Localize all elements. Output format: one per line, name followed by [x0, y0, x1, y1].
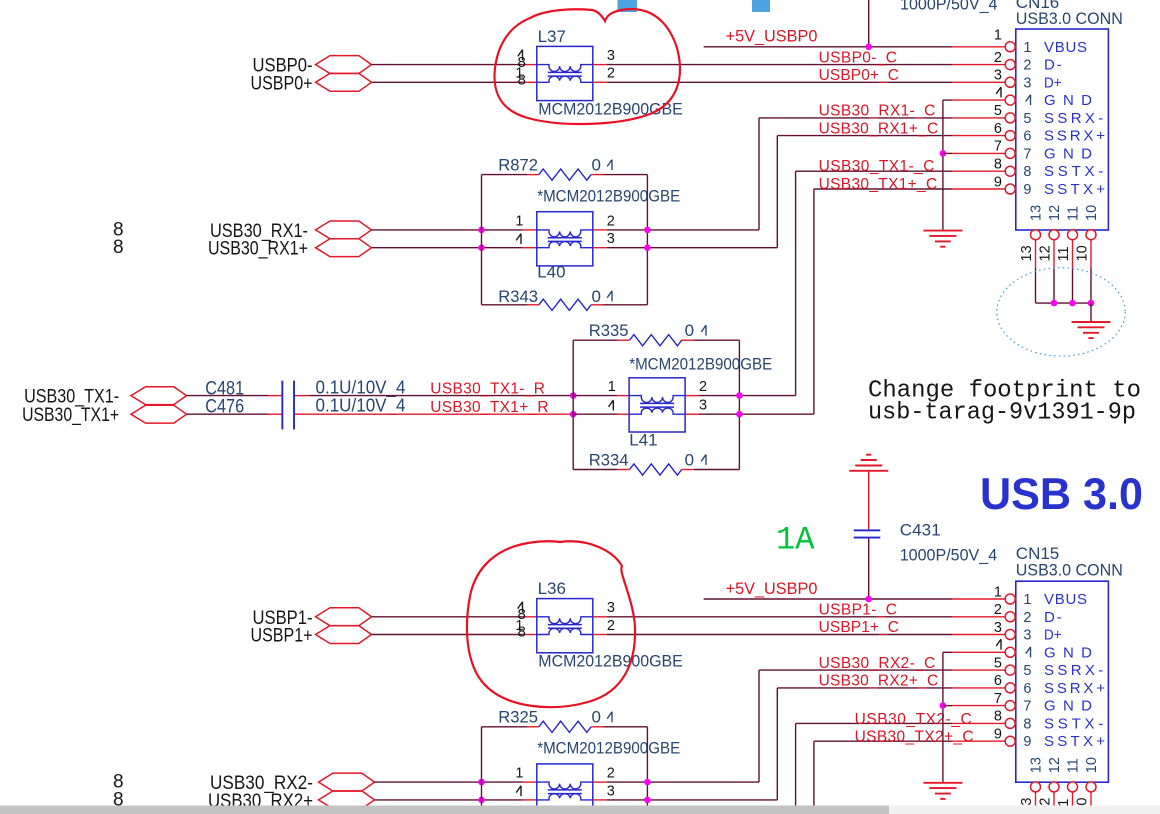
- svg-text:5: 5: [994, 103, 1002, 119]
- svg-text:GND: GND: [1044, 698, 1092, 715]
- svg-text:12: 12: [1047, 757, 1063, 773]
- junction GND / CN15 pin 7: [940, 702, 947, 709]
- wire CN16 pin 13 shield drop: [1035, 239, 1037, 268]
- CN15 pin 6 red stub: [952, 687, 1006, 689]
- wire TX1- row to vertical jog: [699, 395, 796, 397]
- wire USB30_TX2+_C to CN15 pin 9: [814, 740, 952, 742]
- R325 pin 2 stub: [591, 726, 603, 728]
- wire USB30_RX2+_C to CN15 pin 6: [777, 687, 952, 689]
- wire USB30_TX2+_C vertical jog: [813, 741, 815, 814]
- R334 pin 2 stub: [682, 469, 694, 471]
- svg-text:3: 3: [994, 620, 1002, 636]
- annotation freehand red circle around L37: [494, 9, 679, 124]
- wire USB30_RX2-_C to CN15 pin 5: [759, 669, 952, 671]
- svg-text:L40: L40: [537, 263, 565, 282]
- svg-text:VBUS: VBUS: [1044, 591, 1087, 608]
- svg-text:USB30_TX2-_C: USB30_TX2-_C: [855, 711, 972, 728]
- junction R334-box / TX1+ row left: [570, 411, 577, 418]
- UI scrollbar track: [0, 806, 1160, 814]
- wire USB30_TX2-_C vertical jog: [795, 723, 797, 814]
- L40 pin number 4: [516, 234, 521, 244]
- svg-text:SSRX-: SSRX-: [1044, 662, 1103, 679]
- svg-text:7: 7: [1023, 699, 1031, 715]
- wire +5V_USBP0 to CN15 pin 1: [704, 598, 952, 600]
- svg-text:0: 0: [592, 708, 601, 727]
- L41 pin number 4: [609, 400, 614, 410]
- junction shield bus / pin 10: [1088, 300, 1095, 307]
- svg-text:1: 1: [515, 766, 523, 782]
- wire CN16 pin 12 shield drop: [1053, 239, 1055, 268]
- CN15 pin 4 circle: [1005, 647, 1015, 657]
- wire R334 row right: [694, 469, 739, 471]
- svg-text:SSTX-: SSTX-: [1044, 163, 1103, 180]
- junction R325-box / RX2- row right: [644, 779, 651, 786]
- R872 pin 2 stub: [591, 174, 603, 176]
- junction R334-box / TX1+ row right: [736, 411, 743, 418]
- L40 pin 1 stub: [523, 229, 537, 231]
- CN16 pin 4 circle: [1005, 95, 1015, 105]
- svg-text:11: 11: [1066, 758, 1082, 773]
- wire RX2- row to vertical jog: [607, 781, 759, 783]
- svg-text:SSRX-: SSRX-: [1044, 110, 1103, 127]
- svg-text:1: 1: [1023, 40, 1031, 56]
- wire C431 to +5V_USBP0: [868, 539, 870, 600]
- svg-text:+5V_USBP0: +5V_USBP0: [726, 580, 818, 598]
- svg-text:USB30_RX1+: USB30_RX1+: [208, 239, 308, 260]
- junction R343-box / RX1+ row left: [478, 244, 485, 251]
- wire USB30_RX1+_C vertical jog: [776, 136, 778, 248]
- capacitor C430 stub wire from top edge to +5V_USBP0: [868, 0, 870, 47]
- svg-text:7: 7: [1023, 146, 1031, 162]
- off-page port USB30_RX2-: [319, 773, 375, 791]
- svg-text:12: 12: [1038, 245, 1054, 261]
- CN16 pin 5 red stub: [952, 117, 1006, 119]
- R334 pin 1 stub: [618, 469, 630, 471]
- junction R335-box / TX1- row left: [570, 392, 577, 399]
- svg-text:2: 2: [607, 213, 615, 229]
- off-page port USBP1-: [316, 608, 372, 626]
- wire GND to CN16 pin 7: [943, 152, 952, 154]
- wire USB30_RX2+_C vertical jog: [776, 688, 778, 800]
- off-page port USB30_TX1+: [131, 405, 187, 423]
- svg-text:USB30_RX2-_C: USB30_RX2-_C: [819, 655, 936, 672]
- svg-text:8: 8: [518, 72, 526, 89]
- svg-text:USB30_TX1+_C: USB30_TX1+_C: [819, 176, 938, 193]
- CN15 pin 5 red stub: [952, 669, 1006, 671]
- junction R335-box / TX1- row right: [736, 392, 743, 399]
- svg-text:11: 11: [1066, 206, 1082, 221]
- junction R325-box / RX2+ row left: [478, 797, 485, 804]
- junction shield bus / pin 11: [1069, 300, 1076, 307]
- wire R334 row left: [573, 469, 617, 471]
- L40 pin 3 stub: [593, 247, 607, 249]
- CN15 pin 9 red stub: [952, 740, 1006, 742]
- svg-text:7: 7: [994, 139, 1002, 155]
- svg-text:6: 6: [994, 673, 1002, 689]
- off-page port USB30_RX2+: [319, 791, 375, 809]
- svg-text:9: 9: [1023, 182, 1031, 198]
- svg-text:2: 2: [699, 379, 707, 395]
- svg-text:USB30_RX1-_C: USB30_RX1-_C: [819, 103, 936, 120]
- wire USB30_RX1- port to L40: [372, 229, 523, 231]
- svg-text:C476: C476: [205, 397, 244, 418]
- wire RX1- row to vertical jog: [607, 229, 759, 231]
- off-page port USBP0+: [316, 73, 372, 91]
- wire USB30_TX1+ port to C476: [187, 413, 269, 415]
- C481 pin 1 stub: [268, 395, 281, 397]
- junction R872-box / RX1- row right: [644, 227, 651, 234]
- svg-text:L41: L41: [629, 431, 657, 450]
- R343 pin 2 stub: [591, 304, 603, 306]
- svg-text:5: 5: [1023, 111, 1031, 127]
- wire USB30_RX1-_C vertical jog: [758, 118, 760, 230]
- svg-text:0: 0: [685, 450, 694, 469]
- common-mode choke L40: [537, 212, 593, 266]
- CN16 pin 13 circle: [1031, 230, 1041, 240]
- wire USB30_TX1- port to C481: [187, 395, 269, 397]
- svg-text:SSTX+: SSTX+: [1044, 733, 1105, 750]
- junction shield bus / pin 12: [1051, 300, 1058, 307]
- svg-text:2: 2: [607, 766, 615, 782]
- svg-text:D-: D-: [1044, 57, 1062, 74]
- svg-text:USB30_RX1+_C: USB30_RX1+_C: [819, 120, 939, 137]
- junction +5V_USBP0 / C430: [865, 44, 872, 51]
- wire CN15 pin 11 shield drop (clipped): [1072, 792, 1074, 806]
- L41 pin 1 stub: [617, 395, 629, 397]
- svg-text:SSTX-: SSTX-: [1044, 715, 1103, 732]
- svg-text:3: 3: [1023, 628, 1031, 644]
- svg-text:8: 8: [1023, 164, 1031, 180]
- wire R343 row right: [604, 304, 648, 306]
- wire ground to C431: [868, 471, 870, 530]
- svg-text:R325: R325: [498, 708, 538, 727]
- L41 pin 3 stub: [685, 413, 699, 415]
- svg-text:1: 1: [994, 28, 1002, 44]
- wire R335 row left: [573, 339, 617, 341]
- svg-text:GND: GND: [1044, 644, 1092, 661]
- svg-text:0: 0: [592, 156, 601, 175]
- svg-text:USB30_TX2+_C: USB30_TX2+_C: [855, 729, 974, 746]
- CN16 pin 3 red stub: [952, 81, 1006, 83]
- R343 pin 1 stub: [527, 304, 539, 306]
- wire USB30_RX1-_C to CN16 pin 5: [759, 117, 952, 119]
- connector CN16 body: [1016, 29, 1109, 230]
- off-page port USBP0-: [316, 56, 372, 74]
- svg-text:USBP1+_C: USBP1+_C: [819, 619, 899, 636]
- CN16 pin 7 circle: [1005, 148, 1015, 158]
- wire CN15 pin 10 shield drop (clipped): [1090, 792, 1092, 806]
- wire GND from CN15 pin 4: [942, 652, 944, 783]
- wire R872 row right: [604, 174, 648, 176]
- svg-text:3: 3: [994, 68, 1002, 84]
- R335 pin 1 stub: [618, 339, 630, 341]
- svg-text:+5V_USBP0: +5V_USBP0: [726, 28, 818, 46]
- off-page port USB30_RX1-: [316, 221, 372, 239]
- wire shield bus: [1036, 302, 1092, 304]
- wire RX2+ row to vertical jog: [607, 799, 778, 801]
- wire USB30_TX1+_C vertical jog: [813, 189, 815, 414]
- CN16 pin 10 circle: [1086, 230, 1096, 240]
- wire USBP0+ port to L37: [372, 81, 523, 83]
- svg-text:USB30_TX1-_C: USB30_TX1-_C: [819, 158, 935, 175]
- L40 pin 4 stub: [523, 247, 537, 249]
- svg-text:2: 2: [607, 618, 615, 634]
- common-mode choke (RX2, bottom edge): [537, 764, 593, 814]
- svg-text:2: 2: [607, 66, 615, 82]
- wire shield bus to ground: [1090, 303, 1092, 322]
- value label 4 (R325): [607, 712, 612, 722]
- capacitor C481 / C476 left plates: [281, 381, 283, 430]
- RX2 choke pin 2 stub: [593, 781, 607, 783]
- svg-text:0: 0: [592, 287, 601, 306]
- CN16 pin 7 red stub: [952, 152, 1006, 154]
- svg-text:1: 1: [1023, 592, 1031, 608]
- svg-text:1000P/50V_4: 1000P/50V_4: [900, 546, 998, 565]
- CN16 pin 4 red stub: [952, 99, 1006, 101]
- CN16 pin 9 circle: [1005, 184, 1015, 194]
- svg-text:10: 10: [1084, 205, 1100, 221]
- R335 pin 2 stub: [682, 339, 694, 341]
- L36 pin number 4: [518, 602, 523, 612]
- C481 pin 2 stub: [295, 395, 309, 397]
- svg-text:7: 7: [994, 691, 1002, 707]
- common-mode choke L36: [537, 599, 593, 653]
- junction +5V_USBP0 / C431: [865, 596, 872, 603]
- resistor R334: [630, 464, 682, 475]
- svg-text:8: 8: [994, 709, 1002, 725]
- svg-text:USB30_RX2+_C: USB30_RX2+_C: [819, 673, 939, 690]
- svg-text:3: 3: [607, 231, 615, 247]
- svg-text:USB30_TX1+_R: USB30_TX1+_R: [430, 399, 548, 416]
- svg-text:13: 13: [1019, 245, 1035, 261]
- svg-text:3: 3: [607, 783, 615, 799]
- svg-text:D-: D-: [1044, 609, 1062, 626]
- CN15 pin 5 circle: [1005, 665, 1015, 675]
- svg-text:0: 0: [685, 321, 694, 340]
- resistor R335: [630, 335, 682, 346]
- svg-text:R872: R872: [498, 156, 538, 175]
- svg-text:1000P/50V_4: 1000P/50V_4: [900, 0, 998, 14]
- annotation marker square 2 (top toolbar remnant): [752, 0, 770, 12]
- off-page port USB30_RX1+: [316, 239, 372, 257]
- svg-text:5: 5: [1023, 663, 1031, 679]
- wire USB30_TX1-_R to L41 box: [309, 395, 573, 397]
- svg-text:USB 3.0: USB 3.0: [980, 470, 1143, 519]
- RX2 choke pin 1 stub: [523, 781, 537, 783]
- connector CN15 body: [1016, 581, 1109, 782]
- wire USB30_TX1-_C to CN16 pin 8: [796, 170, 952, 172]
- L36 pin 1 stub: [523, 634, 537, 636]
- R872 pin 1 stub: [527, 174, 539, 176]
- ground symbol (CN16 pins 4/7): [923, 230, 962, 232]
- svg-text:GND: GND: [1044, 145, 1092, 162]
- svg-text:*MCM2012B900GBE: *MCM2012B900GBE: [537, 187, 680, 206]
- svg-text:USBP0+_C: USBP0+_C: [819, 67, 899, 84]
- resistor R335 bypass - right vertical wire: [738, 340, 740, 469]
- wire R335 row right: [694, 339, 739, 341]
- svg-text:2: 2: [994, 602, 1002, 618]
- capacitor C481 / C476 right plates: [293, 381, 295, 430]
- svg-text:11: 11: [1056, 246, 1072, 261]
- CN15 pin 9 circle: [1005, 736, 1015, 746]
- junction R325-box / RX2- row left: [478, 779, 485, 786]
- junction GND / CN16 pin 7: [940, 150, 947, 157]
- CN15 pin 7 circle: [1005, 701, 1015, 711]
- L36 pin 2 stub: [593, 634, 607, 636]
- svg-text:5: 5: [994, 655, 1002, 671]
- svg-text:9: 9: [994, 174, 1002, 190]
- svg-text:1: 1: [608, 379, 616, 395]
- value label 4 (R335): [701, 325, 706, 335]
- C476 pin 2 stub: [295, 413, 309, 415]
- svg-text:USB30_TX1-_R: USB30_TX1-_R: [430, 380, 545, 397]
- resistor R325 bypass - left vertical wire: [481, 727, 483, 814]
- CN16 pin 5 circle: [1005, 113, 1015, 123]
- capacitor C431 bottom plate: [854, 537, 881, 539]
- wire USBP1- port to L36: [372, 616, 523, 618]
- wire USB30_TX2-_C to CN15 pin 8: [796, 722, 952, 724]
- svg-text:8: 8: [1023, 716, 1031, 732]
- L37 pin 4 stub: [523, 64, 537, 66]
- svg-text:SSRX+: SSRX+: [1044, 128, 1105, 145]
- svg-text:0.1U/10V_4: 0.1U/10V_4: [316, 394, 406, 416]
- svg-text:USBP1-_C: USBP1-_C: [819, 602, 897, 619]
- CN15 pin 1 circle: [1005, 594, 1015, 604]
- wire USB30_TX1+_C to CN16 pin 9: [814, 188, 952, 190]
- value label 4 (R872): [607, 160, 612, 170]
- CN16 pin 12 circle: [1049, 230, 1059, 240]
- CN15 pin 13 circle: [1031, 782, 1041, 792]
- CN16 pin 9 red stub: [952, 188, 1006, 190]
- ground symbol (CN16 shield): [1072, 321, 1111, 323]
- RX2 choke pin 3 stub: [593, 799, 607, 801]
- svg-text:9: 9: [994, 727, 1002, 743]
- svg-text:R343: R343: [498, 287, 538, 306]
- wire TX1+ row to vertical jog: [699, 413, 814, 415]
- wire R872 row left: [482, 174, 528, 176]
- svg-text:C431: C431: [900, 521, 941, 540]
- CN15 pin 3 red stub: [952, 634, 1006, 636]
- svg-text:USB3.0 CONN: USB3.0 CONN: [1016, 9, 1123, 28]
- CN15 pin 8 red stub: [952, 722, 1006, 724]
- CN15 pin 2 circle: [1005, 612, 1015, 622]
- ground symbol (CN15 pins 4/7): [923, 782, 962, 784]
- CN15 pin 6 circle: [1005, 683, 1015, 693]
- wire CN15 pin 13 shield drop (clipped): [1035, 792, 1037, 806]
- L41 pin 4 stub: [617, 413, 629, 415]
- svg-text:2: 2: [1023, 58, 1031, 74]
- CN16 pin 8 red stub: [952, 170, 1006, 172]
- svg-text:1A: 1A: [776, 522, 815, 559]
- svg-text:usb-tarag-9v1391-9p: usb-tarag-9v1391-9p: [868, 400, 1136, 427]
- CN15 pin 11 circle: [1068, 782, 1078, 792]
- wire USBP1-_C to CN15 pin 2: [607, 616, 952, 618]
- CN15 pin 1 red stub: [952, 598, 1006, 600]
- svg-text:USBP1+: USBP1+: [251, 626, 313, 647]
- svg-text:1: 1: [994, 584, 1002, 600]
- svg-text:R334: R334: [589, 450, 629, 469]
- ground symbol above C431 (inverted): [849, 470, 888, 472]
- L40 pin 2 stub: [593, 229, 607, 231]
- svg-text:R335: R335: [589, 321, 629, 340]
- L37 pin 2 stub: [593, 81, 607, 83]
- CN16 pin 6 red stub: [952, 135, 1006, 137]
- CN15 pin 12 circle: [1049, 782, 1059, 792]
- wire TX1- into L41: [573, 395, 617, 397]
- off-page port USBP1+: [316, 626, 372, 644]
- wire USBP0+_C to CN16 pin 3: [607, 81, 952, 83]
- svg-text:3: 3: [607, 600, 615, 616]
- svg-text:6: 6: [1023, 129, 1031, 145]
- annotation dotted ellipse (shield stitching): [997, 268, 1125, 356]
- capacitor C431 top plate: [854, 529, 881, 531]
- svg-text:3: 3: [607, 48, 615, 64]
- L37 pin number 4: [518, 50, 523, 60]
- wire USB30_TX1+_R to L41 box: [309, 413, 573, 415]
- svg-text:2: 2: [994, 50, 1002, 66]
- CN15 pin 4 red stub: [952, 651, 1006, 653]
- svg-text:8: 8: [518, 624, 526, 641]
- wire CN16 pin 11 shield drop: [1072, 239, 1074, 268]
- UI scrollbar thumb: [0, 806, 889, 814]
- svg-text:L36: L36: [538, 579, 566, 598]
- CN15 pin 10 circle: [1086, 782, 1096, 792]
- svg-text:USBP0+: USBP0+: [251, 73, 313, 94]
- wire USBP1+ port to L36: [372, 634, 523, 636]
- CN16 pin 1 circle: [1005, 42, 1015, 52]
- svg-text:USB30_TX1+: USB30_TX1+: [22, 405, 119, 426]
- svg-text:MCM2012B900GBE: MCM2012B900GBE: [538, 652, 683, 671]
- svg-text:L37: L37: [538, 27, 566, 46]
- wire USBP1+_C to CN15 pin 3: [607, 634, 952, 636]
- off-page port USB30_TX1-: [131, 387, 187, 405]
- wire USB30_TX1-_C vertical jog: [795, 171, 797, 395]
- RX2 choke pin 4 stub: [523, 799, 537, 801]
- wire CN16 pin 10 shield drop: [1090, 239, 1092, 268]
- CN16 pin 1 red stub: [952, 46, 1006, 48]
- annotation marker square (top toolbar remnant): [618, 0, 638, 12]
- junction R325-box / RX2+ row right: [644, 797, 651, 804]
- wire R325 row right: [604, 726, 648, 728]
- wire USB30_RX1+_C to CN16 pin 6: [777, 135, 952, 137]
- svg-text:*MCM2012B900GBE: *MCM2012B900GBE: [537, 739, 680, 758]
- wire USBP0- port to L37: [372, 64, 523, 66]
- CN16 pin 4 number (outside): [996, 87, 1001, 97]
- annotation freehand red circle around L36: [467, 541, 635, 707]
- wire +5V_USBP0 to CN16 pin 1: [704, 46, 952, 48]
- wire USBP0-_C to CN16 pin 2: [607, 64, 952, 66]
- common-mode choke L37: [537, 46, 593, 100]
- svg-text:6: 6: [994, 121, 1002, 137]
- value label 4 (R343): [607, 291, 612, 301]
- svg-text:8: 8: [113, 237, 124, 258]
- RX2 choke pin number 4: [516, 786, 521, 796]
- value label 4 (R334): [701, 455, 706, 465]
- resistor R335 bypass - left vertical wire: [572, 340, 574, 469]
- svg-text:6: 6: [1023, 681, 1031, 697]
- L41 pin 2 stub: [685, 395, 699, 397]
- CN16 pin 4 number (inside): [1026, 95, 1031, 105]
- resistor R872: [539, 169, 591, 180]
- svg-text:10: 10: [1075, 245, 1091, 261]
- svg-text:SSRX+: SSRX+: [1044, 680, 1105, 697]
- svg-text:D+: D+: [1044, 74, 1062, 91]
- CN15 pin 7 red stub: [952, 705, 1006, 707]
- svg-text:D+: D+: [1044, 627, 1062, 644]
- CN16 pin 6 circle: [1005, 131, 1015, 141]
- CN16 pin 8 circle: [1005, 166, 1015, 176]
- resistor R343: [539, 299, 591, 310]
